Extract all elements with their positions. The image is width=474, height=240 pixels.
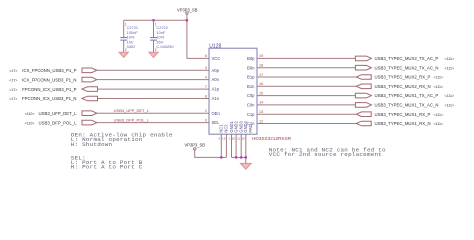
svg-text:B0p: B0p	[247, 56, 255, 61]
svg-text:<111>: <111>	[434, 122, 444, 126]
port USB3_TYPEC_MUX2_RX_P	[356, 75, 443, 80]
wire VP3P3_SB to NC rail	[195, 150, 227, 157]
svg-text:USB3_TYPEC_MUX1_TX_AC_P: USB3_TYPEC_MUX1_TX_AC_P	[375, 93, 439, 98]
port FPCONN_ICX_USB3_P1_N	[9, 96, 97, 101]
svg-text:C0p: C0p	[247, 93, 255, 98]
svg-text:8: 8	[205, 94, 207, 98]
wire B0p	[257, 57, 355, 59]
wire cap rail	[124, 19, 187, 21]
wire GND1 stub down	[231, 134, 233, 157]
svg-text:USB3_TYPEC_MUX1_RX_P: USB3_TYPEC_MUX1_RX_P	[375, 112, 431, 117]
port USB3_TYPEC_MUX1_RX_P	[356, 112, 443, 117]
port ICX_FPCONN_USB3_P1_N	[9, 77, 97, 82]
svg-text:USB3_DFP_POL_L: USB3_DFP_POL_L	[39, 120, 78, 125]
svg-text:15: 15	[259, 91, 263, 95]
wire C1n	[257, 123, 356, 125]
wire GND rail	[232, 157, 246, 163]
svg-text:USB3_TYPEC_MUX2_TX_AC_N: USB3_TYPEC_MUX2_TX_AC_N	[375, 65, 439, 70]
svg-text:HD3SS3212RKSR: HD3SS3212RKSR	[252, 136, 292, 141]
ground (C2722)	[149, 52, 158, 57]
svg-text:18: 18	[259, 64, 263, 68]
svg-text:A0p: A0p	[212, 68, 220, 73]
svg-text:<111>: <111>	[434, 85, 444, 89]
junction NC1/rail	[220, 156, 223, 159]
svg-text:7: 7	[205, 85, 207, 89]
svg-text:17: 17	[259, 73, 263, 77]
svg-text:B0n: B0n	[247, 65, 255, 70]
svg-text:16: 16	[259, 82, 263, 86]
svg-text:USB3_UFP_DET_L: USB3_UFP_DET_L	[114, 108, 150, 113]
svg-text:9: 9	[205, 118, 207, 122]
wire B0n	[257, 67, 355, 69]
IC U128 HD3SS3212RKSR body	[209, 43, 292, 141]
port USB3_TYPEC_MUX2_TX_AC_P	[355, 56, 454, 61]
port ICX_FPCONN_USB3_P1_P	[9, 68, 97, 73]
svg-text:FPCONN_ICX_USB3_P1_N: FPCONN_ICX_USB3_P1_N	[22, 96, 76, 101]
wire SEL	[97, 122, 209, 124]
svg-text:20: 20	[241, 137, 245, 141]
ground (bottom)	[241, 163, 252, 169]
wire A1n	[98, 98, 210, 100]
junction GND4/rail	[245, 156, 248, 159]
svg-text:A1n: A1n	[212, 96, 220, 101]
svg-text:<17>: <17>	[9, 78, 17, 82]
svg-text:FPCONN_ICX_USB3_P1_P: FPCONN_ICX_USB3_P1_P	[22, 87, 76, 92]
wire C1p	[257, 113, 356, 115]
svg-text:19: 19	[259, 54, 263, 58]
svg-text:4: 4	[205, 75, 207, 79]
wire NC1 stub down	[220, 134, 222, 157]
wire GND4 stub down	[245, 134, 247, 157]
wire GND2 stub down	[235, 134, 237, 157]
port USB3_UFP_DET_L	[25, 111, 97, 116]
svg-text:B1p: B1p	[247, 75, 255, 80]
svg-text:<111>: <111>	[434, 76, 444, 80]
junction at power/rail	[186, 19, 189, 22]
wire C0p	[257, 95, 355, 97]
svg-text:C1p: C1p	[247, 112, 255, 117]
wire OEn	[97, 112, 209, 114]
svg-text:USB3_TYPEC_MUX1_TX_AC_N: USB3_TYPEC_MUX1_TX_AC_N	[375, 103, 439, 108]
svg-text:C0n: C0n	[247, 103, 255, 108]
svg-text:VCC: VCC	[212, 56, 221, 61]
svg-text:2: 2	[205, 109, 207, 113]
wire B1n	[257, 85, 356, 87]
svg-text:H: Port A to Port C: H: Port A to Port C	[71, 164, 143, 171]
svg-text:B1n: B1n	[247, 84, 255, 89]
svg-text:16: 16	[222, 137, 226, 141]
svg-text:C-040250: C-040250	[156, 44, 174, 49]
svg-text:A0n: A0n	[212, 77, 220, 82]
svg-text:H: Shutdown: H: Shutdown	[71, 141, 113, 148]
wire C0n	[257, 104, 355, 106]
capacitor C2721	[120, 20, 138, 52]
wire VP3P3_SB down to VCC	[186, 14, 188, 58]
power symbol VP3P3_SB (bottom)	[185, 143, 206, 150]
svg-text:<111>: <111>	[445, 104, 455, 108]
wire A1p	[98, 88, 210, 90]
wire B1p	[257, 76, 356, 78]
svg-text:10: 10	[232, 137, 236, 141]
wire NC2 stub down	[225, 134, 227, 157]
wire A0n	[97, 79, 209, 81]
svg-text:<111>: <111>	[445, 57, 455, 61]
svg-text:12: 12	[259, 119, 263, 123]
port FPCONN_ICX_USB3_P1_P	[9, 87, 97, 92]
svg-text:<17>: <17>	[9, 97, 17, 101]
power symbol VP3P3_SB (top)	[177, 7, 198, 14]
port USB3_TYPEC_MUX2_TX_AC_N	[355, 65, 454, 70]
svg-text:<110>: <110>	[25, 121, 35, 125]
svg-text:11: 11	[237, 137, 240, 141]
ground (C2721)	[119, 52, 128, 57]
svg-text:<17>: <17>	[9, 88, 17, 92]
svg-text:<111>: <111>	[445, 66, 455, 70]
svg-text:<17>: <17>	[9, 69, 17, 73]
svg-text:USB3_DFP_POL_L: USB3_DFP_POL_L	[114, 117, 150, 122]
capacitor C2722	[150, 20, 174, 52]
wire A0p	[97, 69, 209, 71]
svg-text:USB3_TYPEC_MUX2_RX_P: USB3_TYPEC_MUX2_RX_P	[375, 75, 431, 80]
svg-text:VP3P3_SB: VP3P3_SB	[185, 143, 206, 148]
svg-text:13: 13	[259, 110, 263, 114]
svg-text:USB3_TYPEC_MUX2_TX_AC_P: USB3_TYPEC_MUX2_TX_AC_P	[375, 56, 439, 61]
svg-text:OEn: OEn	[212, 111, 221, 116]
svg-text:0402: 0402	[127, 44, 136, 49]
port USB3_TYPEC_MUX1_TX_AC_N	[355, 103, 454, 108]
junction at C2722/rail	[152, 19, 155, 22]
svg-text:<111>: <111>	[434, 113, 444, 117]
svg-text:5: 5	[219, 137, 221, 141]
svg-text:ICX_FPCONN_USB3_P1_N: ICX_FPCONN_USB3_P1_N	[22, 77, 76, 82]
wire VCC horizontal into chip pin 6	[187, 57, 209, 59]
svg-text:A1p: A1p	[212, 87, 220, 92]
svg-text:6: 6	[205, 54, 207, 58]
svg-text:VCC for 2nd source replacement: VCC for 2nd source replacement	[269, 151, 382, 158]
svg-text:14: 14	[259, 101, 263, 105]
junction GND3/rail	[240, 156, 243, 159]
wire GND3 stub down	[240, 134, 242, 157]
svg-text:USB3_UFP_DET_L: USB3_UFP_DET_L	[39, 111, 78, 116]
svg-text:<111>: <111>	[445, 94, 455, 98]
svg-text:ICX_FPCONN_USB3_P1_P: ICX_FPCONN_USB3_P1_P	[22, 68, 76, 73]
svg-text:USB3_TYPEC_MUX1_RX_N: USB3_TYPEC_MUX1_RX_N	[375, 121, 431, 126]
port USB3_TYPEC_MUX2_RX_N	[356, 84, 443, 89]
port USB3_TYPEC_MUX1_RX_N	[356, 121, 443, 126]
port USB3_TYPEC_MUX1_TX_AC_P	[355, 93, 454, 98]
port USB3_DFP_POL_L	[25, 120, 97, 125]
svg-text:1: 1	[229, 137, 231, 141]
svg-text:U128: U128	[209, 43, 221, 49]
junction GND2/rail	[235, 156, 238, 159]
svg-text:<110>: <110>	[25, 112, 35, 116]
svg-text:3: 3	[205, 66, 207, 70]
svg-text:PAD: PAD	[248, 124, 253, 132]
svg-text:USB3_TYPEC_MUX2_RX_N: USB3_TYPEC_MUX2_RX_N	[375, 84, 431, 89]
